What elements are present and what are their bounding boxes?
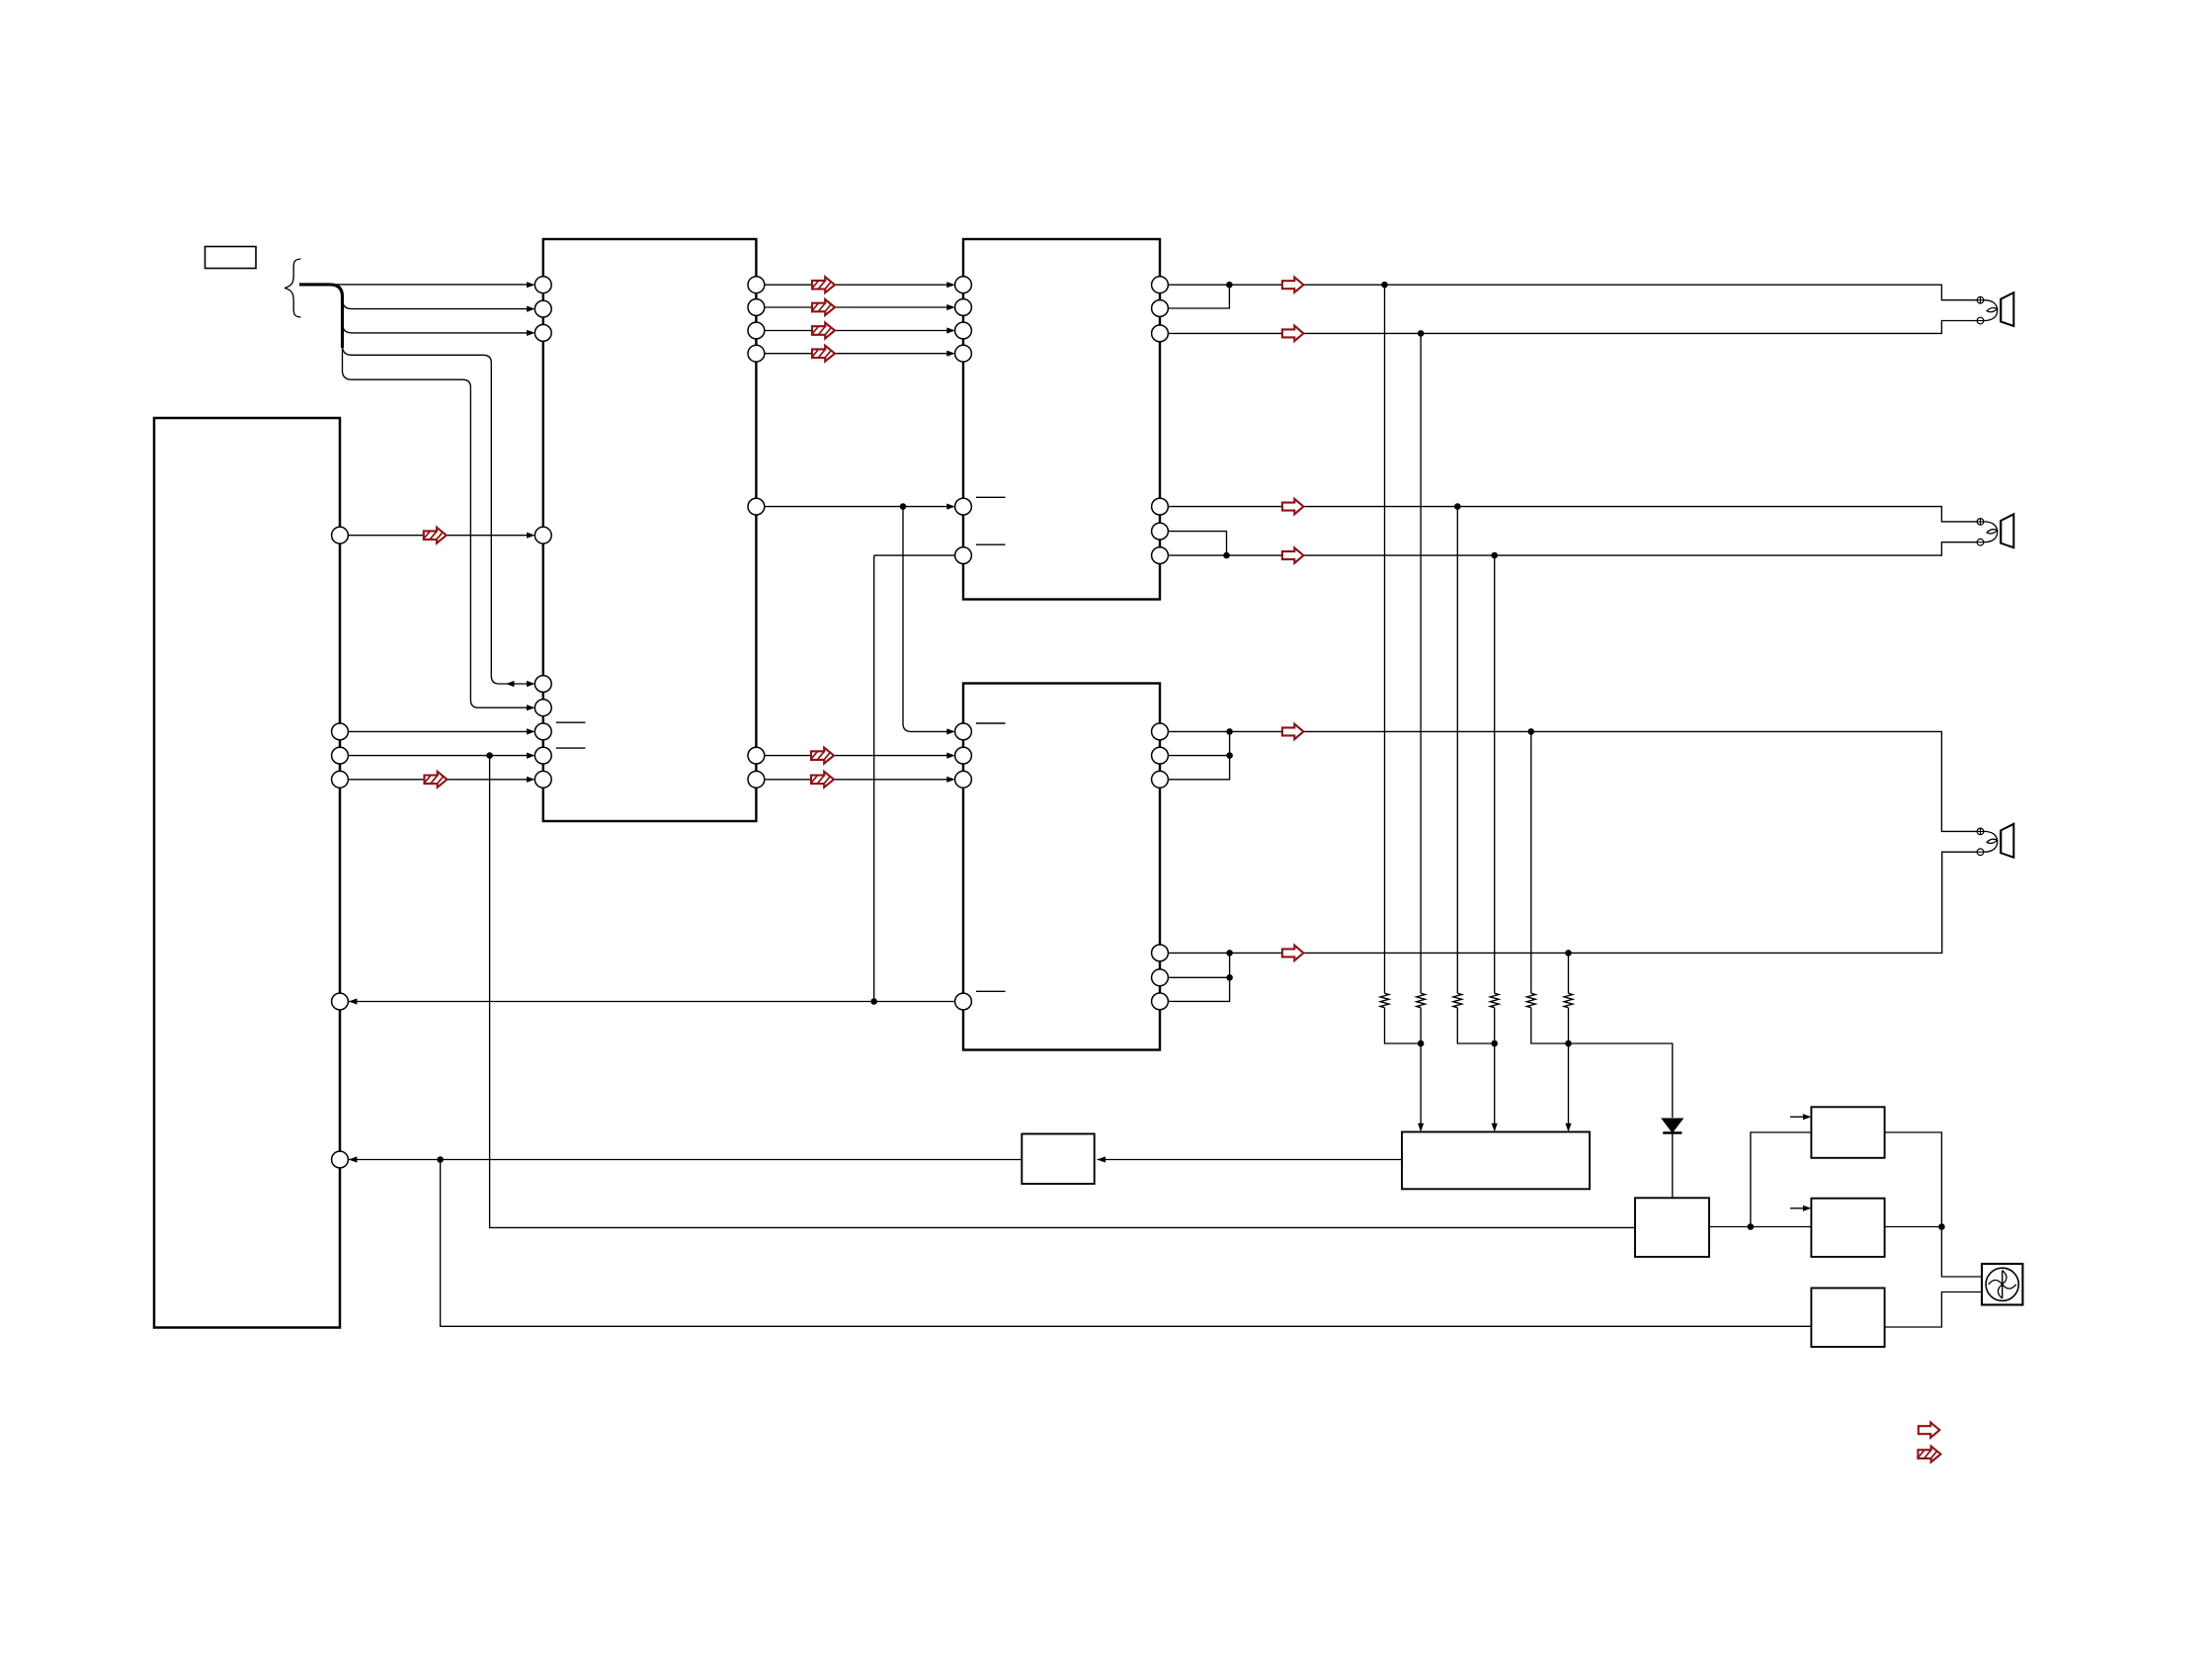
hatched arrow at 821,788.8 [809,772,837,789]
wire U1 to U2 signal 3 (hatched) [756,330,947,332]
diode D1 [1672,1133,1674,1199]
wire PS1 to U1 mid (hatched) [340,535,530,537]
wire SP2 minus net [1168,542,1977,555]
wire vertical to U3 lower net [873,555,875,1001]
wire box D to PS1 [349,1159,1022,1161]
U1 left pins [534,277,551,293]
wire U1 to U2 signal 1 (hatched) [756,284,947,286]
regulator box U6 [1811,1107,1884,1158]
hatched arrow at 822,357.7 [810,346,838,363]
U1 right pins [748,277,765,293]
main DSP IC U1 [543,239,757,821]
amplifier IC U2 [963,239,1160,600]
wire SP2 plus net [1168,507,1977,522]
wire R1-R2 bus [1385,1008,1422,1043]
wire vertical U1-mid to U3 pin1 [903,507,948,732]
wire U1 to U2 signal 4 (hatched) [756,353,947,355]
wire R2 to comparator box [1420,1008,1422,1130]
wire U2 pin link [1168,285,1229,308]
wire to fan upper [1941,1227,1982,1278]
wire R4 to comparator box [1494,1008,1496,1130]
wire brace line 3 [343,323,531,333]
wire R6 to comparator box [1568,1008,1570,1130]
wire U6 out [1885,1132,1942,1227]
comparator box U9 [1402,1132,1590,1190]
interface box U4 [1022,1134,1094,1185]
hatched arrow at 429.5,788.8 [423,772,451,789]
wire U1 to U3 row2 (hatched) [756,755,947,757]
regulator box U7 [1811,1199,1884,1257]
speaker SP2 [1977,514,2013,547]
wire PS1 to U1 row2 [340,755,530,757]
hatched arrow at 822,311 [810,299,838,316]
U2 right pins [1152,277,1169,293]
hatched arrow at 821,764.6 [809,748,837,765]
wire to box E (long run) [490,756,1635,1228]
U2 pin ticks [976,496,1006,498]
wire U3 pin link a [1169,731,1230,755]
wire SP3 minus net [1169,852,1978,953]
speaker SP1 [1977,292,2013,326]
small arrow into U6 [1790,1116,1804,1118]
wire PS1 to U1 row1 [340,730,530,732]
wire U3 to PS1 (return) [349,1001,955,1003]
legend hatched arrow [1916,1447,1943,1463]
detector box U5 [1635,1198,1709,1257]
input bus brace [285,259,301,317]
wire SP1 minus net [1168,321,1977,334]
resistor R5 [1530,731,1532,993]
resistor R4 [1494,555,1496,993]
hatched arrow at 822,334.5 [810,323,838,340]
speaker SP3 [1977,824,2013,858]
wire U7 out [1885,1226,1942,1228]
wire U5 out to U6/U7 [1709,1226,1811,1228]
wire SP1 plus net [1168,285,1977,300]
driver box U8 [1811,1289,1884,1348]
wire U9 to box D [1098,1159,1403,1161]
wire brace line 2 [343,299,531,309]
small arrow into U7 [1790,1207,1804,1209]
U3 pin ticks [976,722,1006,724]
wire U1 to U3 row3 (hatched) [756,779,947,781]
wire brace line 1 [330,284,530,286]
fan M1 [1982,1264,2022,1305]
signal arrow speaker wire y=512.6 [1282,499,1304,514]
PS1 pins [332,527,349,543]
wire R3-R4 bus [1457,1008,1494,1043]
signal arrow speaker wire y=337.4 [1282,326,1304,341]
signal arrow speaker wire y=964.4 [1282,946,1304,960]
wire U3 pin link d [1169,977,1230,1001]
amplifier IC U3 [963,684,1160,1050]
resistor R1 [1384,285,1386,993]
wire U3 pin link b [1169,756,1230,780]
U3 right pins [1152,723,1169,740]
connector label box J1 [205,247,257,269]
resistor R6 [1568,953,1570,993]
wire U2 pin to vertical bus [874,554,955,556]
wire U1 to U2 signal 2 (hatched) [756,306,947,308]
U2 left pins [955,277,972,293]
signal arrow speaker wire y=562.1 [1282,547,1304,562]
U3 left pins [955,723,972,740]
wire U2 pin link lower [1168,532,1226,556]
wire U8 out to fan lower [1885,1292,1982,1328]
legend plain arrow [1919,1423,1940,1438]
signal arrow speaker wire y=288.2 [1282,278,1304,292]
wire brace line 4 to U1 lower pin [343,346,531,684]
wire to box H (long bottom run) [441,1160,1812,1327]
hatched arrow at 822,288.2 [810,277,838,293]
wire R5-R6 bus to diode [1531,1008,1673,1118]
signal arrow speaker wire y=740.4 [1282,724,1304,739]
resistor R3 [1456,507,1458,994]
wire PS1 to U1 row3 (hatched) [340,779,530,781]
wire brace line 5 to U1 lower pin [343,371,531,707]
wire SP3 plus net [1169,731,1978,831]
wire U3 pin link c [1169,953,1230,977]
resistor R2 [1420,333,1422,993]
wire U1 to U2 mid input [756,506,947,508]
U1 pin ticks [556,721,586,723]
input bus thick wire [299,285,343,348]
power supply block PS1 [154,418,340,1328]
